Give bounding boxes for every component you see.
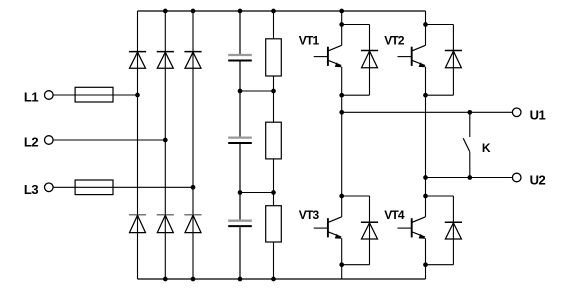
- wire node 2 to C3: [239, 193, 241, 220]
- wire VT2 collector vertical: [425, 25, 427, 46]
- diode VD1 (upper, leg 1): [129, 52, 146, 69]
- transistor VT3 base bar: [327, 218, 329, 237]
- junction VT3 emitter/diode: [339, 262, 344, 267]
- terminal L3 circle: [45, 183, 54, 192]
- wire top bus to R1: [273, 11, 275, 39]
- resistor R2: [266, 122, 282, 159]
- svg-text:VT2: VT2: [384, 33, 405, 47]
- transistor VT1 base bar: [327, 47, 329, 66]
- wire VT1 emitter vertical: [341, 67, 343, 95]
- wire VT2 branch to freewheel diode (top): [426, 24, 454, 26]
- junction top bus / resistor string: [271, 9, 276, 14]
- terminal L2 circle: [45, 136, 54, 145]
- diode freewheel of VT1: [361, 51, 378, 68]
- diode freewheel of VT2: [445, 51, 462, 68]
- switch K upper lead: [469, 112, 471, 137]
- node 2 junction (cap side): [238, 190, 243, 195]
- capacitor C1: [228, 55, 252, 61]
- wire node 1 to R2: [273, 91, 275, 122]
- junction bottom bus / leg 3: [191, 277, 196, 282]
- wire VT3 emitter vertical: [341, 238, 343, 264]
- wire VT2 emitter vertical: [425, 67, 427, 95]
- junction L2 / leg 2: [163, 138, 168, 143]
- freewheel diode vertical wire of VT1: [369, 25, 371, 96]
- junction U1 rail / switch K branch: [467, 110, 472, 115]
- transistor VT1 base lead: [314, 56, 328, 58]
- wire rectifier leg 2 vertical: [164, 11, 166, 279]
- svg-text:VT4: VT4: [384, 208, 405, 222]
- junction L1 / leg 1: [135, 93, 140, 98]
- junction L3 / leg 3: [191, 185, 196, 190]
- node 2 junction (res side): [271, 190, 276, 195]
- diode VD3 (upper, leg 3): [184, 52, 201, 69]
- wire VT3 emitter to bottom bus: [341, 265, 343, 279]
- U1 output rail wire: [342, 111, 512, 113]
- transistor VT1 emitter lead with arrow: [328, 60, 341, 67]
- diode freewheel of VT3: [361, 222, 378, 239]
- capacitor C3: [228, 221, 252, 226]
- junction VT2 emitter/diode: [423, 93, 428, 98]
- wire top bus down to VT1: [341, 11, 343, 25]
- wire U1 rail down to VT3: [341, 112, 343, 196]
- wire node 1 link to resistor string: [240, 90, 274, 92]
- fuse FU1 (phase L1): [75, 87, 113, 102]
- wire VT2 emitter down to U2 rail (crosses U1 rail): [425, 95, 427, 177]
- transistor VT3: [314, 217, 342, 239]
- transistor VT2 emitter lead with arrow: [412, 60, 425, 67]
- top DC bus (+): [138, 10, 426, 12]
- wire L3 to rectifier leg 3: [53, 186, 193, 188]
- diode VD2 (upper, leg 2): [157, 52, 174, 69]
- svg-text:K: K: [482, 141, 491, 155]
- node 1 junction (cap side): [238, 89, 243, 94]
- diode VD4 (lower, leg 1): [129, 215, 146, 233]
- junction top bus / VT1 leg: [339, 9, 344, 14]
- wire rectifier leg 3 vertical: [192, 11, 194, 279]
- transistor VT1: [314, 45, 342, 67]
- terminal U2 circle: [512, 173, 521, 182]
- svg-text:L1: L1: [24, 90, 38, 105]
- junction U1 rail / VT1-VT3 leg: [339, 110, 344, 115]
- transistor VT3 collector lead: [328, 217, 341, 223]
- switch K lower lead: [469, 152, 471, 178]
- wire VT3 branch to freewheel diode (top): [342, 195, 370, 197]
- transistor VT3 emitter lead with arrow: [328, 232, 341, 239]
- wire U2 rail down to VT4: [425, 178, 427, 197]
- resistor R1: [266, 39, 282, 76]
- capacitor C2: [228, 138, 252, 143]
- resistor R3: [266, 206, 282, 242]
- transistor VT2 collector lead: [412, 45, 425, 51]
- wire C1 to node 1: [239, 62, 241, 92]
- junction VT1 collector/diode branch: [339, 22, 344, 27]
- wire R1 to node 1: [273, 76, 275, 91]
- wire VT4 emitter vertical: [425, 238, 427, 264]
- transistor VT4 collector lead: [412, 217, 425, 223]
- transistor VT3 base lead: [314, 227, 328, 229]
- freewheel diode vertical wire of VT2: [452, 25, 454, 96]
- junction VT3 collector/diode branch: [339, 194, 344, 199]
- wire rectifier leg 1 vertical: [137, 11, 139, 279]
- diode VD5 (lower, leg 2): [157, 215, 174, 233]
- wire VT4 emitter to bottom bus corner: [425, 265, 427, 279]
- transistor VT1 collector lead: [328, 45, 341, 51]
- svg-text:U2: U2: [530, 173, 546, 188]
- wire node 2 link to resistor string: [240, 192, 274, 194]
- wire L2 to rectifier leg 2: [53, 139, 165, 141]
- freewheel diode vertical wire of VT3: [369, 196, 371, 265]
- junction top bus / leg 3: [191, 9, 196, 14]
- wire node 2 to R3: [273, 193, 275, 206]
- wire VT1 collector vertical: [341, 25, 343, 46]
- fuse FU2 (phase L3): [75, 180, 113, 195]
- wire VT4 branch to freewheel diode (top): [426, 195, 454, 197]
- switch K blade: [463, 138, 470, 152]
- wire VT4 collector vertical: [425, 196, 427, 217]
- svg-text:U1: U1: [530, 108, 546, 123]
- junction U2 rail / switch K branch: [467, 175, 472, 180]
- junction top bus / leg 2: [163, 9, 168, 14]
- junction bottom bus / capacitor string: [238, 277, 243, 282]
- junction U2 rail / VT2-VT4 leg: [423, 175, 428, 180]
- wire VT1 emitter to freewheel diode (bottom): [342, 94, 370, 96]
- svg-text:VT3: VT3: [299, 208, 320, 222]
- freewheel diode vertical wire of VT4: [452, 196, 454, 265]
- terminal L1 circle: [45, 91, 54, 100]
- U2 output rail wire: [426, 177, 513, 179]
- transistor VT4: [398, 217, 426, 239]
- junction VT4 collector/diode branch: [423, 194, 428, 199]
- transistor VT4 emitter lead with arrow: [412, 232, 425, 239]
- transistor VT2: [398, 45, 426, 67]
- wire VT1 emitter to U1 rail: [341, 95, 343, 112]
- wire VT3 emitter to freewheel diode (bottom): [342, 264, 370, 266]
- transistor VT2 base bar: [411, 47, 413, 66]
- junction top bus / capacitor string: [238, 9, 243, 14]
- terminal U1 circle: [512, 108, 521, 117]
- wire VT3 collector vertical: [341, 196, 343, 217]
- wire L1 to rectifier leg 1: [53, 94, 137, 96]
- svg-text:L2: L2: [24, 135, 38, 150]
- wire top bus corner down to VT2: [425, 11, 427, 25]
- bottom DC bus (-): [138, 278, 426, 280]
- transistor VT2 base lead: [398, 56, 412, 58]
- transistor VT4 base lead: [398, 227, 412, 229]
- svg-text:VT1: VT1: [299, 33, 320, 47]
- junction bottom bus / resistor string: [271, 277, 276, 282]
- wire VT4 emitter to freewheel diode (bottom): [426, 264, 454, 266]
- wire top bus to C1: [239, 11, 241, 54]
- diode freewheel of VT4: [445, 222, 462, 239]
- junction VT2 collector/diode branch: [423, 22, 428, 27]
- wire VT2 emitter to freewheel diode (bottom): [426, 94, 454, 96]
- junction VT1 emitter/diode: [339, 93, 344, 98]
- wire node 1 to C2: [239, 91, 241, 137]
- wire R3 to bottom bus: [273, 242, 275, 279]
- svg-text:L3: L3: [24, 182, 38, 197]
- wire R2 to node 2: [273, 159, 275, 193]
- wire C3 to bottom bus: [239, 227, 241, 279]
- diode VD6 (lower, leg 3): [184, 215, 201, 233]
- wire C2 to node 2: [239, 144, 241, 193]
- wire VT1 branch to freewheel diode (top): [342, 24, 370, 26]
- junction bottom bus / leg 2: [163, 277, 168, 282]
- node 1 junction (res side): [271, 89, 276, 94]
- junction VT4 emitter/diode: [423, 262, 428, 267]
- transistor VT4 base bar: [411, 218, 413, 237]
